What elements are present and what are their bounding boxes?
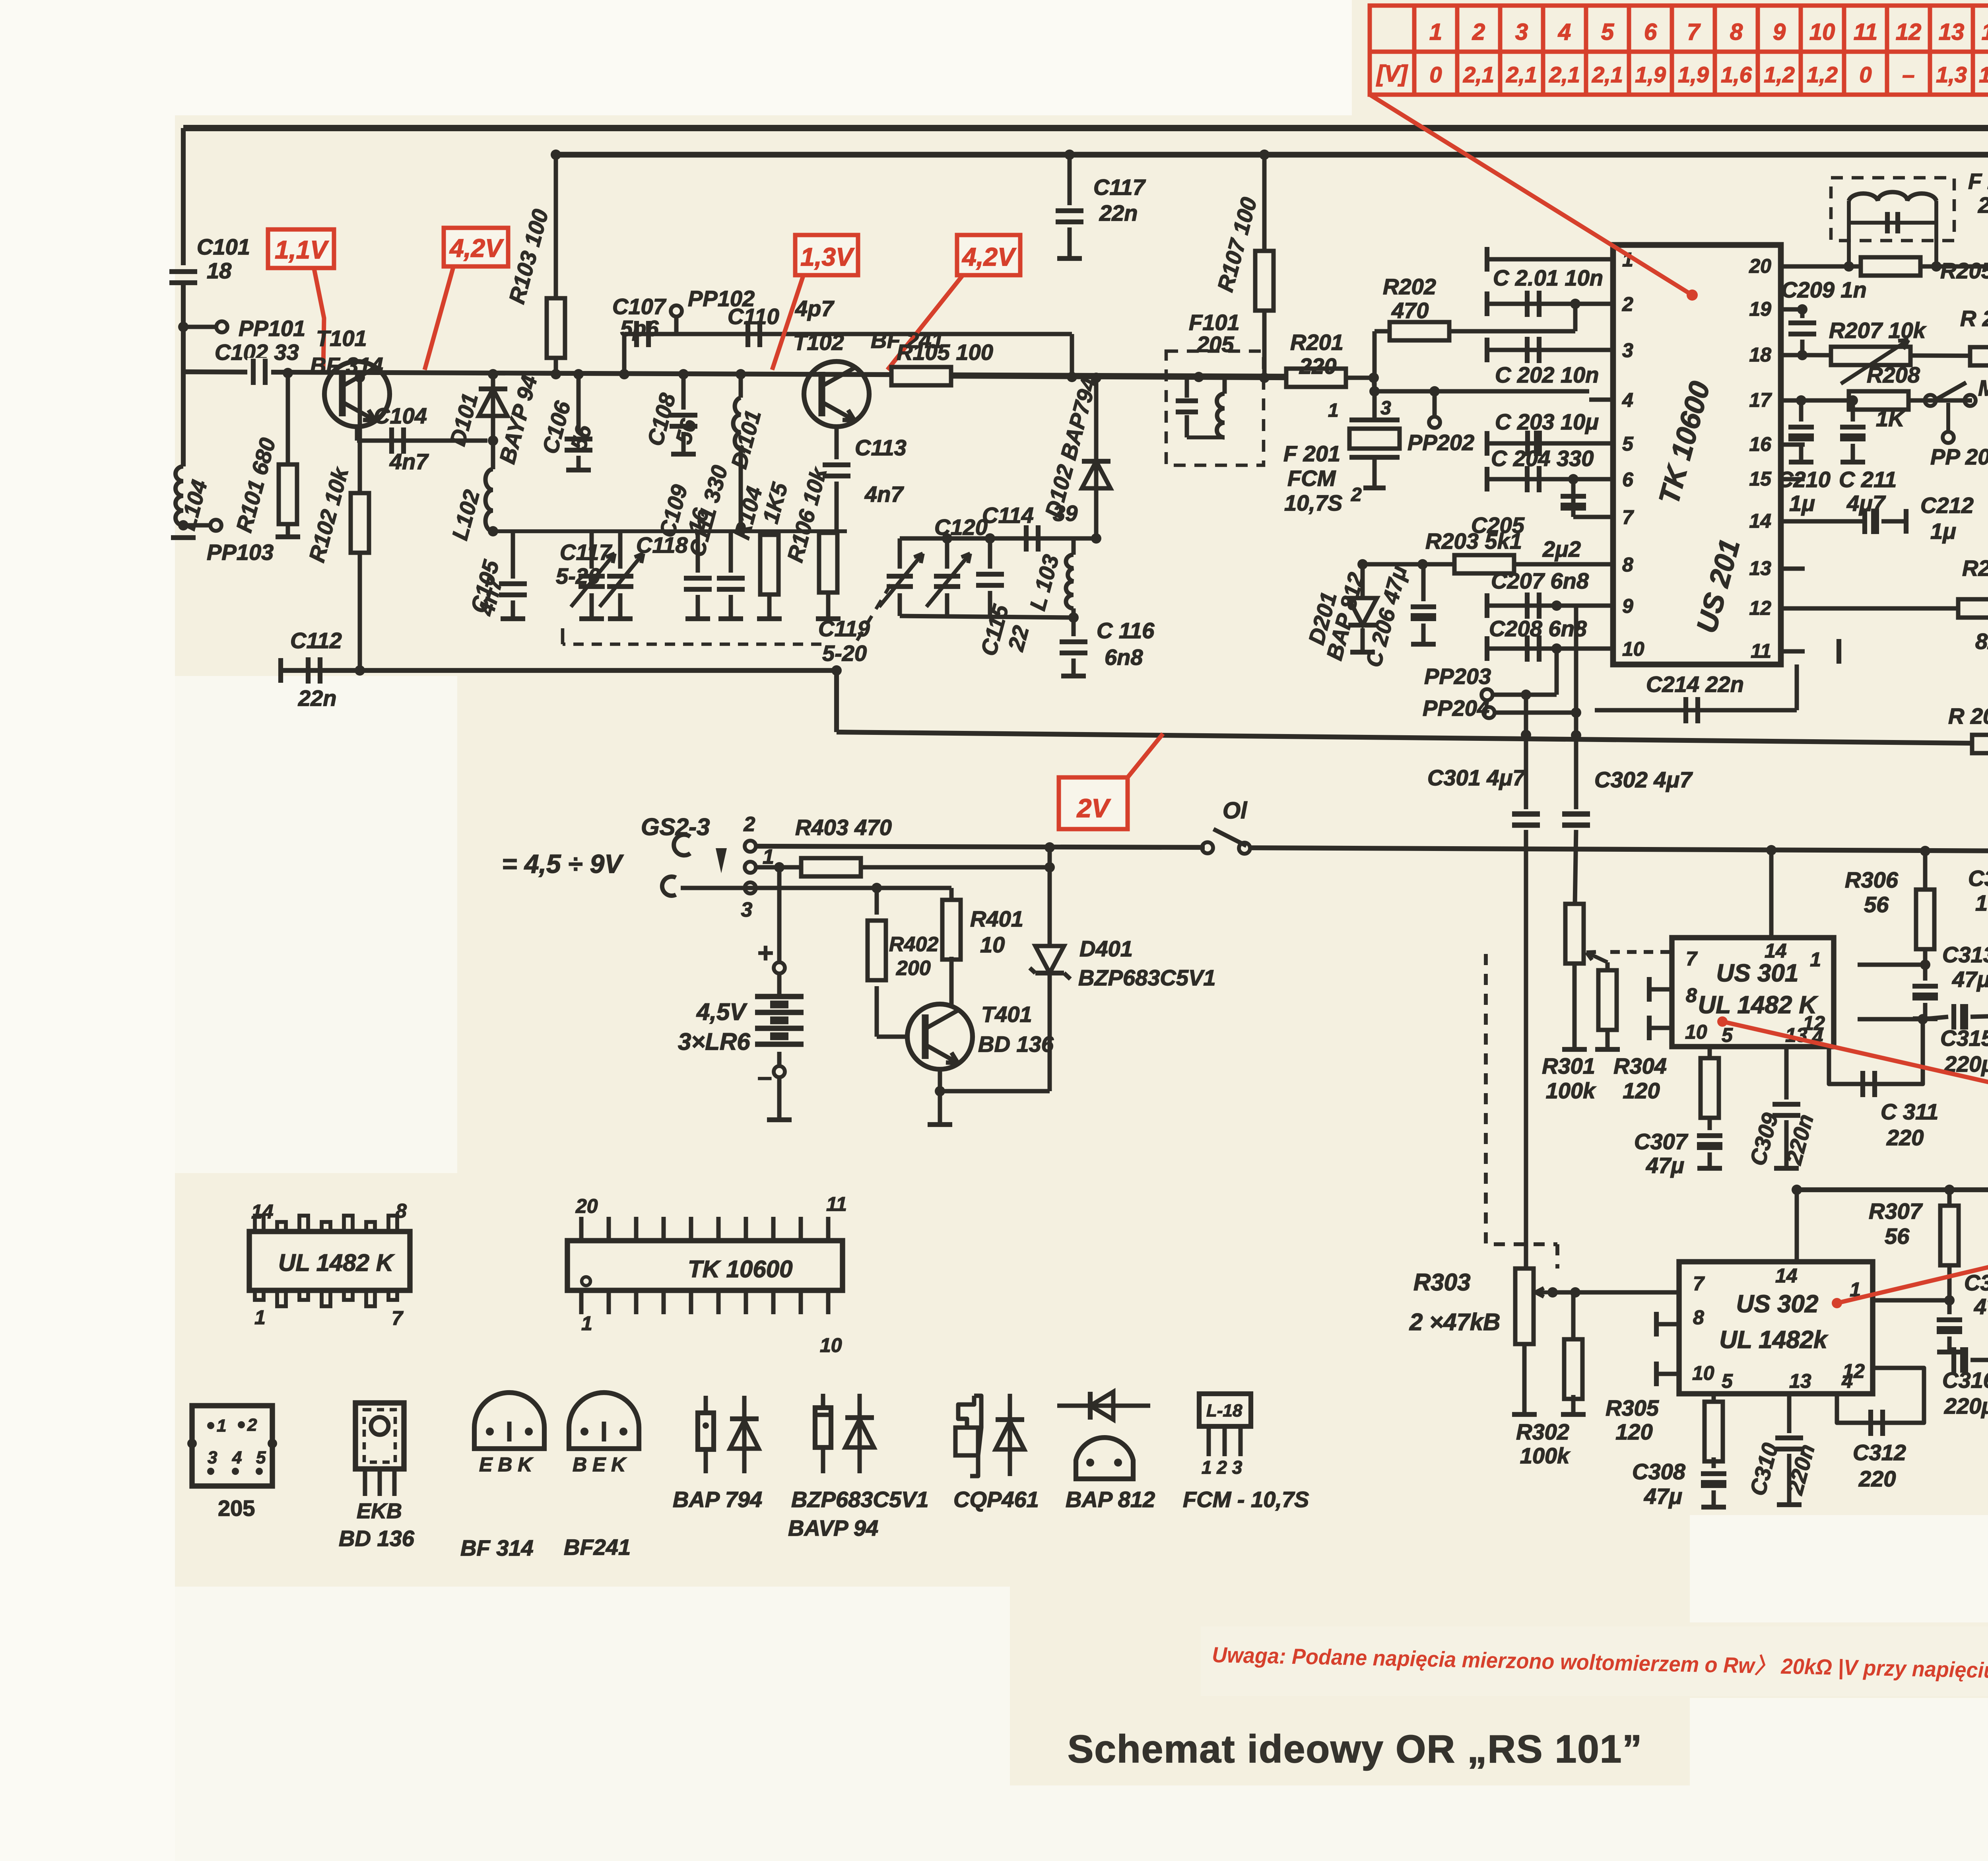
capacitor C113 4n7 xyxy=(835,427,839,459)
svg-text:5p6: 5p6 xyxy=(620,316,659,341)
inductor L102 xyxy=(491,441,495,469)
op-amp U201 TK10600 box xyxy=(1613,245,1781,664)
F101 internal capacitor xyxy=(1185,378,1189,398)
svg-text:FCM: FCM xyxy=(1287,466,1336,491)
capacitor C109 16 xyxy=(696,531,700,573)
red leader from top table to U201 xyxy=(1370,95,1692,295)
capacitor C106 56 xyxy=(577,374,581,433)
svg-text:2: 2 xyxy=(744,813,755,836)
US301 block bottom border xyxy=(1797,1187,1988,1192)
svg-text:220: 220 xyxy=(1299,354,1336,379)
svg-text:47μ: 47μ xyxy=(1974,1294,1988,1319)
DIP UL1482K outline xyxy=(249,1232,410,1290)
diode symbol BAP794 xyxy=(742,1396,747,1473)
svg-text:R304: R304 xyxy=(1613,1053,1667,1078)
svg-text:8: 8 xyxy=(1730,19,1743,45)
svg-text:1: 1 xyxy=(1328,400,1339,421)
svg-text:2μ2: 2μ2 xyxy=(1542,536,1581,561)
svg-text:8: 8 xyxy=(1622,554,1633,576)
inductor Dl101 xyxy=(739,374,743,398)
svg-text:C317: C317 xyxy=(1968,866,1988,891)
svg-text:BF 314: BF 314 xyxy=(310,353,383,378)
capacitor C311 220 xyxy=(1829,1019,1923,1084)
pin 11 U201 xyxy=(1781,649,1805,654)
wire antenna left rail lower xyxy=(181,283,186,466)
svg-text:2,1: 2,1 xyxy=(1549,62,1580,87)
svg-text:T101: T101 xyxy=(316,326,367,351)
red voltage table top xyxy=(1370,6,1988,95)
red note Uwaga xyxy=(1212,1642,1988,1687)
resistor R206 6k8 xyxy=(1970,347,1988,365)
svg-text:2,1: 2,1 xyxy=(1506,62,1537,87)
svg-text:1,3V: 1,3V xyxy=(800,243,855,271)
svg-text:6n8: 6n8 xyxy=(1105,645,1143,670)
svg-text:T401: T401 xyxy=(981,1002,1032,1027)
svg-text:UL 1482k: UL 1482k xyxy=(1719,1326,1829,1354)
svg-text:14: 14 xyxy=(1775,1265,1798,1287)
svg-text:C104: C104 xyxy=(374,403,427,428)
svg-text:13: 13 xyxy=(1749,557,1771,579)
svg-text:8: 8 xyxy=(396,1200,407,1222)
svg-text:5-20: 5-20 xyxy=(822,641,867,666)
svg-text:2: 2 xyxy=(247,1415,257,1435)
svg-text:470: 470 xyxy=(1391,298,1429,323)
resistor R104 1K5 xyxy=(767,531,772,535)
svg-text:220μ: 220μ xyxy=(1944,1393,1988,1418)
svg-text:M/S: M/S xyxy=(1978,375,1988,400)
svg-text:UL 1482 K: UL 1482 K xyxy=(278,1249,395,1276)
dashed trimmer link xyxy=(855,585,891,644)
crystal F201 xyxy=(1349,418,1400,422)
pin 10 U201 xyxy=(1589,647,1613,651)
leader 1,3V xyxy=(772,276,803,370)
diode D102 BAP794 xyxy=(1094,378,1099,538)
svg-text:R307: R307 xyxy=(1869,1199,1923,1224)
capacitor C116 6n8 xyxy=(1072,618,1076,636)
svg-text:R205 3k: R205 3k xyxy=(1940,258,1988,283)
pin 12 U201 xyxy=(1781,606,1805,611)
resistor R103 100 xyxy=(554,155,558,298)
wire pin20 line xyxy=(1805,264,1988,269)
svg-text:20: 20 xyxy=(575,1195,598,1217)
pin 7 U201 xyxy=(1589,515,1613,519)
svg-text:1,2: 1,2 xyxy=(1807,62,1838,87)
pin 1 U201 xyxy=(1589,257,1613,262)
svg-text:R301: R301 xyxy=(1542,1053,1595,1078)
wiper line to U302 pin7 xyxy=(1553,1290,1679,1295)
oscillator bottom line xyxy=(900,616,1074,618)
svg-text:10,7S: 10,7S xyxy=(1284,490,1342,515)
svg-text:C209 1n: C209 1n xyxy=(1781,277,1867,302)
wire R201 to node xyxy=(1346,376,1374,380)
wire pin12 line R209 xyxy=(1805,606,1988,611)
wire bus to F101 xyxy=(951,376,1285,378)
capacitor C302 4u7 xyxy=(1574,713,1578,809)
svg-text:10: 10 xyxy=(1685,1021,1707,1043)
node PP103 xyxy=(178,520,188,530)
capacitor C112 22n xyxy=(278,658,283,683)
svg-text:PP101: PP101 xyxy=(239,316,305,341)
switch M/S xyxy=(1925,395,1936,406)
svg-text:10: 10 xyxy=(1809,19,1835,45)
svg-text:US 301: US 301 xyxy=(1716,960,1799,987)
capacitor C211 4u7 xyxy=(1851,400,1855,422)
svg-text:BF241: BF241 xyxy=(564,1535,631,1560)
leader 1,1V xyxy=(314,269,324,370)
svg-text:BZP683C5V1: BZP683C5V1 xyxy=(791,1487,929,1512)
svg-text:3: 3 xyxy=(208,1448,217,1467)
svg-text:4,2V: 4,2V xyxy=(961,243,1017,271)
svg-text:9: 9 xyxy=(1622,595,1633,617)
svg-text:6: 6 xyxy=(1622,468,1634,491)
svg-text:D401: D401 xyxy=(1079,936,1133,961)
svg-text:47μ: 47μ xyxy=(1644,1484,1682,1509)
svg-text:TK 10600: TK 10600 xyxy=(688,1256,793,1282)
svg-text:1,3: 1,3 xyxy=(1936,62,1967,87)
svg-text:16: 16 xyxy=(1749,433,1772,455)
capacitor C214 22n xyxy=(1595,708,1797,713)
wire U302 supply branch xyxy=(1795,1190,1799,1262)
svg-text:R105 100: R105 100 xyxy=(897,340,993,365)
svg-text:R403 470: R403 470 xyxy=(795,815,892,840)
node PP204 xyxy=(1483,707,1495,718)
diode D201 BAP812 xyxy=(1361,564,1365,596)
svg-text:3×LR6: 3×LR6 xyxy=(678,1028,750,1055)
wire inner top rail xyxy=(556,152,1988,158)
svg-text:12: 12 xyxy=(1896,19,1922,45)
svg-text:1: 1 xyxy=(581,1312,592,1335)
svg-text:2,1: 2,1 xyxy=(1592,62,1623,87)
svg-text:1,9: 1,9 xyxy=(1635,62,1666,87)
pin 9 U201 xyxy=(1589,604,1613,608)
trimmer capacitor C118 5-20 xyxy=(590,531,594,569)
pin 16 U201 xyxy=(1781,443,1805,447)
capacitor C310 220n xyxy=(1787,1394,1792,1433)
capacitor C101 xyxy=(169,269,197,274)
svg-text:–: – xyxy=(1902,62,1914,87)
package BAP794 body xyxy=(704,1396,708,1413)
svg-text:13: 13 xyxy=(1789,1370,1811,1392)
resistor R105 100 xyxy=(891,367,951,385)
svg-text:R306: R306 xyxy=(1845,867,1899,892)
pin 8 U201 xyxy=(1589,562,1613,567)
pin 15 U201 xyxy=(1781,477,1805,482)
pin 5 U201 xyxy=(1589,441,1613,446)
svg-text:3: 3 xyxy=(1515,19,1528,45)
svg-text:PP204: PP204 xyxy=(1423,695,1489,721)
leader 4,2V right xyxy=(887,276,962,370)
svg-text:C113: C113 xyxy=(855,435,907,460)
leader 4,2V left xyxy=(425,267,453,370)
svg-text:R209: R209 xyxy=(1962,556,1988,581)
resistor R207 10k with arrow xyxy=(1831,347,1910,365)
svg-text:C117: C117 xyxy=(1093,175,1146,200)
svg-text:4n7: 4n7 xyxy=(864,482,904,507)
package CQP461 body xyxy=(955,1396,978,1476)
package BF241 dome xyxy=(569,1393,639,1449)
svg-text:2: 2 xyxy=(1622,293,1633,315)
capacitor C206 47u xyxy=(1421,564,1426,601)
svg-text:11: 11 xyxy=(1854,19,1877,45)
svg-text:PP 204: PP 204 xyxy=(1930,444,1988,469)
wire pin18 line xyxy=(1805,355,1988,357)
svg-text:205: 205 xyxy=(1196,332,1234,357)
svg-text:1: 1 xyxy=(1810,948,1821,971)
node PP202 xyxy=(1429,386,1440,396)
svg-text:R401: R401 xyxy=(970,906,1023,931)
diode symbol BZP683 xyxy=(858,1394,862,1473)
svg-text:11: 11 xyxy=(1751,640,1771,662)
svg-text:C315: C315 xyxy=(1940,1026,1988,1051)
voltage box 1,1V xyxy=(268,229,334,268)
svg-text:BAVP 94: BAVP 94 xyxy=(788,1515,878,1540)
capacitor C104 4n7 xyxy=(355,427,359,441)
wire pin17 line xyxy=(1805,398,1972,403)
capacitor C209 1n xyxy=(1800,309,1805,318)
resistor R204 1K xyxy=(1972,735,1988,753)
capacitor C204 330 xyxy=(1486,477,1589,482)
svg-text:14: 14 xyxy=(1982,19,1988,45)
svg-text:4p7: 4p7 xyxy=(795,296,835,321)
capacitor C110 4p7 xyxy=(745,321,750,347)
svg-text:C118: C118 xyxy=(636,532,688,558)
resistor R301 100k xyxy=(1565,904,1584,964)
svg-text:10: 10 xyxy=(820,1334,842,1356)
svg-text:7: 7 xyxy=(1687,19,1701,45)
svg-text:4,5V: 4,5V xyxy=(696,998,747,1025)
svg-text:1K: 1K xyxy=(1876,406,1906,431)
wire pin4 line xyxy=(1375,389,1589,394)
svg-text:120: 120 xyxy=(1623,1078,1660,1103)
pin 6 U201 xyxy=(1589,477,1613,482)
resistor R401 10 xyxy=(949,888,954,903)
wire supply rail xyxy=(755,846,1205,847)
filter F202 dashed box xyxy=(1831,178,1954,241)
svg-text:C313: C313 xyxy=(1942,942,1988,967)
resistor R205 3k xyxy=(1861,257,1920,276)
capacitor C315 220u xyxy=(1951,1004,1956,1030)
trimmer capacitor C120 xyxy=(945,538,949,569)
node column F201 xyxy=(1369,373,1379,383)
svg-text:BAP 812: BAP 812 xyxy=(1066,1487,1155,1512)
svg-text:EKB: EKB xyxy=(357,1499,402,1523)
svg-text:C301 4μ7: C301 4μ7 xyxy=(1427,765,1526,790)
DIP TK10600 outline xyxy=(567,1241,843,1290)
svg-text:UL 1482 K: UL 1482 K xyxy=(1698,991,1819,1019)
F101 internal coil xyxy=(1223,378,1227,394)
capacitor C117 22n xyxy=(1068,155,1072,205)
resistor R209 820 xyxy=(1958,599,1988,618)
svg-text:C312: C312 xyxy=(1853,1440,1906,1465)
svg-text:Ol: Ol xyxy=(1223,798,1248,824)
capacitor C108 56 xyxy=(681,374,686,410)
pin 13 U201 xyxy=(1781,567,1805,571)
trimmer capacitor C117 xyxy=(618,531,623,569)
resistor R306 56 xyxy=(1923,851,1928,891)
svg-text:F 201: F 201 xyxy=(1283,441,1340,466)
resistor R208 1K xyxy=(1849,391,1908,410)
package BZP683 body xyxy=(821,1394,825,1408)
svg-text:10: 10 xyxy=(1622,638,1644,660)
svg-text:7: 7 xyxy=(392,1307,404,1329)
capacitor C309 220n xyxy=(1784,1047,1789,1100)
svg-text:+: + xyxy=(757,937,774,968)
resistor R106 10k xyxy=(826,531,831,535)
package BAP812 dome xyxy=(1076,1438,1133,1479)
leader 2V xyxy=(1128,734,1163,777)
svg-text:5-20: 5-20 xyxy=(556,563,600,589)
svg-text:BZP683C5V1: BZP683C5V1 xyxy=(1078,965,1216,990)
pin 4 U201 xyxy=(1589,398,1613,402)
diode symbol CQP461 xyxy=(1008,1394,1012,1476)
pin1 U301 wiring xyxy=(1858,963,1925,967)
svg-text:L-18: L-18 xyxy=(1206,1401,1242,1420)
svg-text:100k: 100k xyxy=(1520,1443,1571,1468)
svg-text:C117: C117 xyxy=(560,540,613,565)
svg-text:1,6: 1,6 xyxy=(1721,62,1752,87)
svg-text:R207 10k: R207 10k xyxy=(1829,318,1927,343)
svg-text:19: 19 xyxy=(1749,298,1771,320)
battery 3xLR6 xyxy=(777,867,782,962)
svg-text:= 4,5 ÷ 9V: = 4,5 ÷ 9V xyxy=(502,849,624,878)
svg-text:C120: C120 xyxy=(934,515,988,540)
capacitor C202 10n xyxy=(1486,348,1589,352)
svg-text:14: 14 xyxy=(251,1201,274,1223)
svg-text:F 202: F 202 xyxy=(1968,169,1988,194)
pin11 stub xyxy=(1837,639,1841,664)
resistor R403 470 xyxy=(755,865,802,870)
wire F202 to pin20 line xyxy=(1847,223,1851,266)
svg-text:205: 205 xyxy=(1978,192,1988,218)
voltage box 4,2V right xyxy=(957,235,1020,275)
svg-text:–: – xyxy=(757,1062,772,1091)
pin8 pin10 stubs U301 xyxy=(1648,987,1672,992)
dashed mechanical link xyxy=(1486,954,1557,1244)
node PP203 xyxy=(1481,689,1493,700)
red leader U302 to table xyxy=(1832,1298,1842,1308)
svg-text:220: 220 xyxy=(1858,1466,1896,1491)
svg-text:1: 1 xyxy=(1429,19,1442,45)
capacitor C312 220 xyxy=(1837,1368,1924,1423)
svg-text:BD 136: BD 136 xyxy=(339,1526,415,1551)
wire node line under L102 xyxy=(493,529,847,533)
package FCM-10,7S xyxy=(1199,1394,1251,1426)
svg-text:2,1: 2,1 xyxy=(1463,62,1494,87)
oscillator top line xyxy=(900,536,1074,541)
F202 coil xyxy=(1849,192,1936,201)
capacitor C201 10n xyxy=(1486,257,1589,262)
resistor R305 120 under pin5 xyxy=(1712,1394,1716,1406)
pin 18 U201 xyxy=(1781,353,1805,357)
package EKB BD136 xyxy=(355,1403,404,1469)
svg-text:C 202 10n: C 202 10n xyxy=(1495,362,1599,387)
svg-text:15: 15 xyxy=(1749,468,1772,490)
svg-text:C302 4μ7: C302 4μ7 xyxy=(1594,767,1693,792)
svg-text:R 206 6k8: R 206 6k8 xyxy=(1960,306,1988,331)
svg-text:4: 4 xyxy=(1622,389,1633,411)
svg-text:1: 1 xyxy=(254,1306,266,1329)
svg-text:C308: C308 xyxy=(1632,1459,1686,1484)
svg-text:10n: 10n xyxy=(1975,890,1988,915)
symbol BAP812 diode xyxy=(1057,1404,1150,1408)
svg-text:200: 200 xyxy=(896,957,931,980)
potentiometer wiper R301 xyxy=(1598,970,1617,1030)
svg-text:2: 2 xyxy=(1472,19,1485,45)
pin 14 U201 xyxy=(1781,519,1805,524)
op-amp U301 UL1482K box xyxy=(1672,938,1834,1047)
svg-text:C 204 330: C 204 330 xyxy=(1491,446,1594,471)
resistor R304 120 under pin5 xyxy=(1708,1047,1712,1059)
svg-text:3: 3 xyxy=(1380,398,1391,419)
svg-text:1 2 3: 1 2 3 xyxy=(1202,1457,1242,1478)
svg-text:12: 12 xyxy=(1749,597,1771,619)
svg-text:820: 820 xyxy=(1975,629,1988,654)
svg-text:CQP461: CQP461 xyxy=(953,1487,1039,1512)
svg-text:220: 220 xyxy=(1886,1125,1924,1150)
pin 19 U201 xyxy=(1781,307,1805,312)
resistor R107 100 xyxy=(1262,155,1267,252)
svg-text:4: 4 xyxy=(1558,19,1571,45)
pin14 U302 stub xyxy=(1792,1185,1802,1195)
F202 capacitor xyxy=(1847,201,1851,223)
svg-text:FCM - 10,7S: FCM - 10,7S xyxy=(1183,1487,1309,1512)
svg-text:10: 10 xyxy=(1692,1362,1714,1384)
capacitor C105 4n7 xyxy=(511,531,515,579)
svg-text:R201: R201 xyxy=(1290,330,1343,355)
node PP102 xyxy=(671,305,682,317)
resistor R307 56 xyxy=(1947,1190,1952,1207)
svg-text:1: 1 xyxy=(763,845,774,868)
wire antenna left rail upper xyxy=(181,128,186,265)
svg-text:13: 13 xyxy=(1939,19,1965,45)
svg-text:7: 7 xyxy=(1693,1272,1705,1295)
svg-text:1μ: 1μ xyxy=(1789,491,1815,516)
svg-text:2: 2 xyxy=(1351,484,1362,505)
voltage box 1,3V xyxy=(795,235,858,275)
pin1 U302 wiring C314 xyxy=(1873,1298,1949,1303)
inductor L104 xyxy=(175,466,183,525)
filter F101 dashed box xyxy=(1166,351,1264,465)
svg-text:4,2V: 4,2V xyxy=(449,234,504,262)
svg-text:C316: C316 xyxy=(1942,1368,1988,1393)
svg-text:R305: R305 xyxy=(1606,1395,1659,1420)
svg-text:0: 0 xyxy=(1859,62,1872,87)
capacitor C316 220u xyxy=(1924,1360,1948,1360)
pin14 U301 to rail xyxy=(1769,855,1774,938)
svg-text:C 211: C 211 xyxy=(1839,467,1897,492)
svg-text:R202: R202 xyxy=(1383,274,1436,299)
svg-text:5: 5 xyxy=(1601,19,1614,45)
svg-text:4: 4 xyxy=(232,1448,242,1467)
svg-text:BF 314: BF 314 xyxy=(460,1535,534,1560)
capacitor C203 10u xyxy=(1486,441,1589,446)
svg-text:C307: C307 xyxy=(1634,1129,1689,1154)
capacitor C102 xyxy=(247,358,271,386)
svg-text:4n7: 4n7 xyxy=(389,449,429,474)
svg-text:US 302: US 302 xyxy=(1736,1290,1819,1318)
svg-text:47μ: 47μ xyxy=(1646,1153,1684,1178)
svg-text:1,3: 1,3 xyxy=(1979,62,1988,87)
svg-text:C112: C112 xyxy=(290,628,342,653)
svg-text:7: 7 xyxy=(1622,506,1634,528)
svg-text:C101: C101 xyxy=(197,234,250,259)
svg-text:17: 17 xyxy=(1749,389,1772,411)
capacitor C210 1u xyxy=(1799,400,1804,422)
resistor R201 220 xyxy=(1286,369,1346,387)
resistor R102 10k xyxy=(355,372,365,383)
svg-text:10: 10 xyxy=(980,932,1005,957)
svg-text:18: 18 xyxy=(207,258,232,283)
